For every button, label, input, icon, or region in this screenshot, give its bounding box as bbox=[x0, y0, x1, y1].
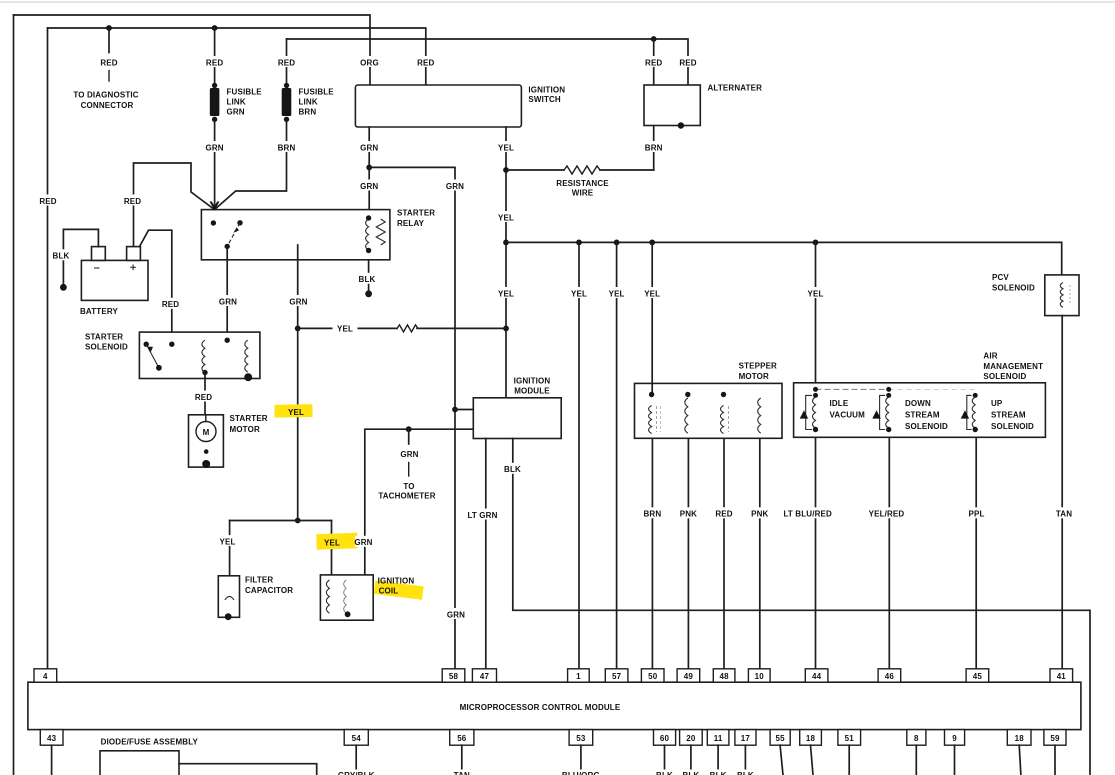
svg-text:41: 41 bbox=[1057, 672, 1067, 681]
fusible link GRN bbox=[210, 83, 220, 122]
svg-text:ORG: ORG bbox=[360, 58, 379, 67]
svg-text:49: 49 bbox=[684, 672, 694, 681]
pin box 51 bbox=[838, 730, 861, 746]
resistance wire R1 bbox=[506, 166, 654, 174]
relay coil winding bbox=[366, 219, 369, 250]
solenoid coil 1 bbox=[202, 340, 205, 372]
svg-text:59: 59 bbox=[1050, 734, 1060, 743]
wire RED alternator feed 1 bbox=[653, 39, 655, 85]
wire YEL drop to stepper motor bbox=[651, 242, 653, 383]
stepper wire into box bbox=[651, 383, 653, 394]
wire BLK relay coil ground bbox=[368, 260, 370, 291]
svg-text:BLU/ORG: BLU/ORG bbox=[562, 771, 600, 775]
svg-text:BRN: BRN bbox=[644, 510, 662, 519]
relay contact dot right bbox=[237, 220, 242, 225]
svg-text:PCV: PCV bbox=[992, 273, 1009, 282]
wire YEL to filter capacitor bbox=[229, 521, 231, 576]
wire RED from battery to relay (up-over) bbox=[134, 163, 215, 247]
pin box 41 bbox=[1050, 669, 1073, 682]
node BLK label (60) bbox=[654, 770, 675, 775]
solenoid GRN terminal dot bbox=[225, 338, 230, 343]
svg-text:4: 4 bbox=[43, 672, 48, 681]
svg-text:RED: RED bbox=[278, 58, 295, 67]
node IGNITION SWITCH label bbox=[528, 86, 565, 105]
filter capacitor C1 bbox=[218, 576, 239, 620]
node PNK label (stepper 2) bbox=[678, 507, 700, 518]
svg-text:43: 43 bbox=[47, 734, 57, 743]
node BRN label (alternator) bbox=[643, 141, 665, 152]
svg-text:58: 58 bbox=[449, 672, 459, 681]
junction on bus2 at diagnostic bbox=[106, 25, 112, 31]
pin box 11 bbox=[707, 730, 729, 746]
wire GRN relay to starter solenoid bbox=[226, 246, 228, 340]
pin box 60 bbox=[654, 730, 676, 746]
solenoid switch contact dot bbox=[144, 342, 149, 347]
node GRN label (switch out) bbox=[358, 141, 380, 152]
svg-text:STARTER: STARTER bbox=[85, 332, 123, 341]
svg-text:1: 1 bbox=[576, 672, 581, 681]
node PPL label bbox=[966, 507, 988, 518]
svg-text:55: 55 bbox=[775, 734, 785, 743]
relay switch arm bbox=[227, 223, 240, 247]
svg-text:YEL: YEL bbox=[498, 289, 514, 298]
node ORG label bbox=[358, 56, 381, 67]
svg-text:RED: RED bbox=[679, 58, 696, 67]
svg-text:WIRE: WIRE bbox=[572, 189, 594, 198]
wire below pin 43 bbox=[51, 745, 53, 775]
stepper winding 1 bbox=[649, 392, 661, 434]
junction YEL split capacitor/coil bbox=[295, 518, 301, 524]
svg-text:MANAGEMENT: MANAGEMENT bbox=[983, 362, 1043, 371]
ignition module U2 bbox=[473, 398, 561, 439]
pin box 17 bbox=[735, 730, 756, 746]
wire top bus 3 (alternator feed) bbox=[287, 39, 689, 85]
wire top bus 1 (to ORG) bbox=[14, 15, 371, 85]
svg-text:TACHOMETER: TACHOMETER bbox=[378, 491, 435, 500]
PCV solenoid L1 bbox=[1045, 275, 1079, 316]
node LT GRN label bbox=[467, 509, 500, 520]
wire BLK below pin 60 bbox=[664, 745, 666, 775]
air mgmt internal bus bbox=[813, 387, 975, 392]
wire LT BLU/RED to pin 44 bbox=[815, 437, 817, 669]
svg-text:48: 48 bbox=[719, 672, 729, 681]
svg-text:50: 50 bbox=[648, 672, 658, 681]
node GRN label (module feed) bbox=[444, 180, 466, 191]
wire BLU/ORG below pin 53 bbox=[580, 745, 582, 775]
svg-text:54: 54 bbox=[352, 734, 362, 743]
svg-text:47: 47 bbox=[480, 672, 490, 681]
pin box 56 bbox=[450, 730, 474, 746]
node GRN label (ignition coil) bbox=[354, 536, 376, 547]
relay coil bottom dot bbox=[366, 248, 371, 253]
svg-text:BLK: BLK bbox=[504, 465, 521, 474]
pin box 9 bbox=[945, 730, 965, 746]
node TAN label bbox=[1052, 507, 1076, 518]
node IGNITION MODULE label bbox=[513, 376, 558, 396]
junction on bus2 at fusible link GRN bbox=[212, 25, 218, 31]
node YEL label 3 bbox=[496, 287, 517, 298]
node STARTER MOTOR label bbox=[230, 414, 268, 434]
node GRN label (relay out 2) bbox=[288, 295, 310, 306]
svg-text:IGNITION: IGNITION bbox=[378, 576, 415, 585]
svg-text:DOWN: DOWN bbox=[905, 399, 931, 408]
svg-text:YEL: YEL bbox=[288, 408, 304, 417]
svg-text:18: 18 bbox=[1015, 734, 1025, 743]
wire RED stub to diagnostic connector bbox=[108, 28, 110, 81]
microprocessor control module bbox=[28, 682, 1081, 729]
pin box 45 bbox=[966, 669, 989, 682]
node BLU/ORG label bbox=[560, 770, 602, 775]
node YEL label (pin57) bbox=[606, 287, 627, 298]
wire TAN below pin 56 bbox=[461, 745, 463, 775]
svg-text:11: 11 bbox=[714, 734, 723, 743]
svg-text:RED: RED bbox=[124, 197, 141, 206]
svg-text:STEPPER: STEPPER bbox=[739, 362, 777, 371]
svg-text:STREAM: STREAM bbox=[905, 410, 940, 419]
junction bus3 alternator left bbox=[651, 36, 657, 42]
node YEL label 2 bbox=[496, 211, 517, 222]
wire GRN ignition switch output bbox=[368, 127, 370, 210]
wire below pin 55 bbox=[780, 745, 783, 775]
wire GRN ignition coil to module bbox=[365, 429, 474, 575]
svg-text:BRN: BRN bbox=[645, 143, 663, 152]
pin box 53 bbox=[569, 730, 593, 746]
svg-text:GRN: GRN bbox=[354, 538, 372, 547]
node YEL label 1 bbox=[496, 141, 517, 152]
svg-text:TO: TO bbox=[403, 482, 414, 491]
pin box 8 bbox=[907, 730, 926, 746]
node RED label (alt 1) bbox=[643, 56, 664, 67]
wire RED stepper to pin 48 bbox=[723, 438, 725, 669]
wire GRY/BLK below pin 54 bbox=[355, 745, 357, 775]
svg-text:TO DIAGNOSTIC: TO DIAGNOSTIC bbox=[73, 91, 138, 100]
wire left RED vertical to pin 4 bbox=[47, 28, 49, 669]
wire GRN branch to ignition module bbox=[369, 167, 455, 668]
svg-text:BLK: BLK bbox=[53, 252, 70, 261]
junction GRN at ignition module bbox=[452, 407, 458, 413]
wire GRN from fusible link to starter relay bbox=[214, 119, 216, 209]
node YEL label (air mgmt) bbox=[805, 287, 826, 298]
svg-text:GRN: GRN bbox=[219, 297, 237, 306]
fusible link BRN bbox=[282, 83, 292, 122]
solenoid coil 2 bbox=[245, 340, 248, 372]
node TAN label (bottom) bbox=[450, 770, 474, 775]
pin box 54 bbox=[344, 730, 368, 746]
svg-text:56: 56 bbox=[457, 734, 467, 743]
svg-text:SOLENOID: SOLENOID bbox=[85, 343, 128, 352]
stepper motor M2 bbox=[635, 383, 783, 438]
ignition switch U1 bbox=[355, 85, 521, 127]
node STARTER SOLENOID label bbox=[85, 332, 128, 351]
node IGNITION COIL label bbox=[378, 576, 415, 595]
node FUSIBLE LINK GRN label bbox=[227, 87, 263, 116]
svg-text:RED: RED bbox=[39, 197, 56, 206]
svg-text:AIR: AIR bbox=[983, 352, 997, 361]
wire YEL drop to pin 1 bbox=[578, 242, 580, 668]
junction YEL resistor line left bbox=[295, 326, 301, 332]
svg-text:PPL: PPL bbox=[968, 510, 984, 519]
node YEL label (filter cap) bbox=[217, 535, 238, 546]
svg-text:44: 44 bbox=[812, 672, 822, 681]
wire RED drop to fusible link GRN bbox=[214, 28, 216, 86]
relay coil top dot bbox=[366, 215, 371, 220]
node RED label (fusible BRN) bbox=[276, 56, 297, 67]
svg-text:SOLENOID: SOLENOID bbox=[992, 283, 1035, 292]
svg-text:LINK: LINK bbox=[299, 97, 318, 106]
svg-text:COIL: COIL bbox=[379, 587, 399, 596]
idle vacuum solenoid L2 bbox=[800, 393, 819, 432]
wire GRN relay second output bbox=[297, 245, 299, 521]
svg-text:53: 53 bbox=[576, 734, 586, 743]
wire LT GRN module to pin 47 bbox=[485, 439, 487, 669]
pin box 55 bbox=[770, 730, 790, 746]
svg-text:RED: RED bbox=[162, 300, 179, 309]
wire GRN tachometer stub bbox=[408, 429, 410, 476]
svg-text:60: 60 bbox=[660, 734, 670, 743]
svg-text:TAN: TAN bbox=[454, 771, 470, 775]
svg-text:GRN: GRN bbox=[446, 182, 464, 191]
wire RED solenoid to starter motor bbox=[204, 373, 206, 415]
svg-text:RED: RED bbox=[195, 393, 212, 402]
svg-text:YEL: YEL bbox=[498, 213, 514, 222]
wire BRN from fusible link to starter relay bbox=[215, 119, 287, 209]
svg-text:RED: RED bbox=[417, 58, 434, 67]
pin box 49 bbox=[677, 669, 700, 682]
junction YEL resistor line 2 bbox=[503, 326, 509, 332]
node YEL label (resistor line) bbox=[333, 323, 358, 335]
wire YEL split horizontal bbox=[230, 520, 332, 522]
node AIR MANAGEMENT SOLENOID label bbox=[983, 352, 1043, 382]
svg-text:YEL: YEL bbox=[609, 289, 625, 298]
stepper winding 4 bbox=[758, 398, 761, 433]
relay arm pivot dot bbox=[225, 244, 230, 249]
svg-text:YEL: YEL bbox=[219, 537, 235, 546]
wire RED battery to starter solenoid bbox=[140, 230, 172, 344]
pin box 57 bbox=[605, 669, 628, 682]
svg-text:SOLENOID: SOLENOID bbox=[983, 372, 1026, 381]
svg-text:51: 51 bbox=[845, 734, 855, 743]
svg-text:BLK: BLK bbox=[359, 275, 376, 284]
svg-text:DIODE/FUSE ASSEMBLY: DIODE/FUSE ASSEMBLY bbox=[101, 737, 199, 746]
wire BLK below pin 20 bbox=[690, 745, 692, 775]
node FILTER CAPACITOR label bbox=[245, 575, 293, 594]
svg-text:46: 46 bbox=[885, 672, 895, 681]
svg-text:MODULE: MODULE bbox=[514, 387, 550, 396]
highlight YEL marker 1 bbox=[274, 404, 312, 417]
battery bbox=[81, 247, 148, 301]
svg-text:MICROPROCESSOR CONTROL MODUL: MICROPROCESSOR CONTROL MODULE bbox=[460, 703, 621, 712]
node YEL label (pin1) bbox=[569, 287, 590, 298]
node UP STREAM SOLENOID label bbox=[991, 399, 1034, 431]
svg-text:IGNITION: IGNITION bbox=[528, 86, 565, 95]
svg-text:IDLE: IDLE bbox=[830, 399, 849, 408]
svg-text:8: 8 bbox=[914, 734, 919, 743]
svg-text:FILTER: FILTER bbox=[245, 575, 273, 584]
pin box 48 bbox=[713, 669, 735, 682]
junction YEL resistance wire bbox=[503, 167, 509, 173]
svg-text:YEL: YEL bbox=[571, 289, 587, 298]
svg-text:CAPACITOR: CAPACITOR bbox=[245, 586, 293, 595]
air management solenoid assembly bbox=[794, 383, 1046, 438]
wire below pin 18 right bbox=[1019, 745, 1021, 775]
svg-text:MOTOR: MOTOR bbox=[739, 372, 769, 381]
wire top bus 2 (RED) bbox=[48, 28, 426, 85]
node STARTER RELAY label bbox=[397, 209, 435, 228]
svg-text:BRN: BRN bbox=[299, 107, 317, 116]
node RED label (stepper 3) bbox=[714, 507, 735, 518]
svg-text:RELAY: RELAY bbox=[397, 219, 425, 228]
svg-text:YEL: YEL bbox=[807, 289, 823, 298]
solenoid coil 2 terminal dot bbox=[244, 373, 252, 381]
pin box 47 bbox=[472, 669, 496, 682]
svg-text:BLK: BLK bbox=[682, 771, 699, 775]
svg-text:RESISTANCE: RESISTANCE bbox=[556, 179, 609, 188]
svg-text:18: 18 bbox=[806, 734, 816, 743]
svg-text:BRN: BRN bbox=[278, 143, 296, 152]
relay contact dot left bbox=[211, 220, 216, 225]
svg-text:PNK: PNK bbox=[751, 510, 768, 519]
wire GRN into ignition module bbox=[455, 409, 473, 411]
pin box 4 bbox=[34, 669, 57, 682]
wire below pin 51 bbox=[848, 745, 850, 775]
wire BRN stepper to pin 50 bbox=[651, 438, 653, 669]
svg-text:TAN: TAN bbox=[1056, 510, 1072, 519]
node RED label (battery to solenoid) bbox=[160, 298, 181, 309]
wire PNK stepper to pin 10 bbox=[759, 438, 761, 669]
node BRN label (below fusible BRN) bbox=[276, 141, 298, 152]
pin box 46 bbox=[878, 669, 901, 682]
junction alternator bottom bbox=[678, 122, 684, 128]
svg-text:LT BLU/RED: LT BLU/RED bbox=[783, 510, 832, 519]
wire TAN PCV to pin 41 bbox=[1061, 316, 1063, 669]
svg-text:YEL/RED: YEL/RED bbox=[869, 510, 905, 519]
svg-text:RED: RED bbox=[100, 58, 117, 67]
wire PNK stepper to pin 49 bbox=[687, 438, 689, 669]
svg-text:GRN: GRN bbox=[205, 143, 223, 152]
wire from diode/fuse assembly bbox=[179, 764, 317, 775]
node YEL/RED label bbox=[867, 507, 906, 518]
junction GRN tachometer tap bbox=[406, 426, 412, 432]
svg-text:LT GRN: LT GRN bbox=[467, 511, 497, 520]
junction arrow into relay bbox=[210, 202, 220, 211]
svg-text:GRY/BLK: GRY/BLK bbox=[338, 771, 375, 775]
svg-text:YEL: YEL bbox=[498, 143, 514, 152]
node GRN label (below fusible GRN) bbox=[204, 141, 226, 152]
node FUSIBLE LINK BRN label bbox=[299, 87, 335, 116]
stepper winding 2 bbox=[685, 392, 691, 433]
svg-text:STARTER: STARTER bbox=[230, 414, 268, 423]
svg-text:GRN: GRN bbox=[400, 450, 418, 459]
starter relay K1 bbox=[201, 210, 390, 260]
node YEL label (stepper) bbox=[642, 287, 663, 298]
solenoid switch arm bbox=[146, 344, 162, 370]
wire RED drop to fusible link BRN bbox=[286, 39, 288, 86]
node BLK label (module) bbox=[502, 463, 523, 474]
svg-text:LINK: LINK bbox=[227, 97, 246, 106]
svg-text:SWITCH: SWITCH bbox=[528, 95, 561, 104]
svg-text:STREAM: STREAM bbox=[991, 410, 1026, 419]
node TO TACHOMETER label bbox=[378, 482, 435, 500]
pin box 1 bbox=[568, 669, 590, 682]
wire YEL ignition switch output to module bbox=[505, 127, 507, 398]
pin box 18 right bbox=[1007, 730, 1031, 746]
junction GRN switch output bbox=[366, 165, 372, 171]
node PCV SOLENOID label bbox=[992, 273, 1035, 292]
svg-text:FUSIBLE: FUSIBLE bbox=[299, 87, 335, 96]
up stream solenoid L4 bbox=[961, 393, 978, 432]
svg-text:IGNITION: IGNITION bbox=[514, 377, 551, 386]
wire BLK below pin 17 bbox=[744, 745, 746, 775]
pin box 59 bbox=[1044, 730, 1066, 746]
svg-text:M: M bbox=[203, 428, 210, 437]
stepper winding 3 bbox=[721, 392, 729, 434]
svg-text:CONNECTOR: CONNECTOR bbox=[81, 101, 134, 110]
svg-text:UP: UP bbox=[991, 399, 1003, 408]
node RED label (alt 2) bbox=[678, 56, 699, 67]
node RED label (starter motor) bbox=[193, 391, 214, 402]
svg-text:YEL: YEL bbox=[644, 289, 660, 298]
node RED label (left wire) bbox=[38, 195, 58, 206]
node TO DIAGNOSTIC CONNECTOR bbox=[73, 91, 138, 111]
svg-text:YEL: YEL bbox=[324, 539, 340, 548]
node BLK label (17) bbox=[735, 770, 756, 775]
pin box 44 bbox=[805, 669, 828, 682]
junction YEL bus start bbox=[503, 240, 509, 246]
node LT BLU/RED label bbox=[781, 507, 834, 518]
node BLK label (battery) bbox=[51, 249, 72, 260]
pin box 18 bbox=[800, 730, 822, 746]
alternator bbox=[644, 85, 700, 126]
svg-text:GRN: GRN bbox=[227, 107, 245, 116]
svg-text:BLK: BLK bbox=[737, 771, 754, 775]
wire BLK module ground run bbox=[513, 439, 1090, 775]
starter solenoid bbox=[139, 332, 260, 378]
pin box 10 bbox=[748, 669, 770, 682]
highlight YEL marker 2 bbox=[316, 533, 358, 550]
node RED label (fusible GRN) bbox=[204, 56, 225, 67]
svg-text:RED: RED bbox=[715, 510, 732, 519]
svg-text:MOTOR: MOTOR bbox=[230, 425, 260, 434]
svg-text:BLK: BLK bbox=[710, 771, 727, 775]
svg-text:45: 45 bbox=[973, 672, 983, 681]
svg-text:GRN: GRN bbox=[447, 610, 465, 619]
svg-text:PNK: PNK bbox=[680, 510, 697, 519]
junction YEL bus pin57 bbox=[614, 240, 620, 246]
wire BRN from alternator bbox=[653, 126, 655, 171]
wire below pin 18 bbox=[811, 745, 814, 775]
svg-text:ALTERNATER: ALTERNATER bbox=[708, 83, 763, 92]
svg-text:RED: RED bbox=[645, 58, 662, 67]
svg-text:VACUUM: VACUUM bbox=[830, 410, 866, 419]
diode/fuse assembly box bbox=[100, 751, 179, 775]
svg-text:RED: RED bbox=[206, 58, 223, 67]
terminal dot BLK battery bbox=[60, 284, 67, 291]
wire YEL to ignition coil bbox=[331, 521, 333, 575]
svg-text:YEL: YEL bbox=[337, 325, 353, 334]
solenoid RED terminal dot bbox=[169, 342, 174, 347]
svg-text:17: 17 bbox=[741, 734, 751, 743]
left border wire bbox=[13, 15, 15, 775]
pin box 20 bbox=[680, 730, 703, 746]
wire below pin 8 bbox=[915, 745, 917, 775]
svg-text:GRN: GRN bbox=[289, 297, 307, 306]
wire YEL drop to pin 57 bbox=[616, 242, 618, 668]
pin box 58 bbox=[442, 669, 465, 682]
wire YEL crank resistor line bbox=[298, 325, 506, 332]
node RED label (ignition switch) bbox=[415, 56, 436, 67]
svg-text:SOLENOID: SOLENOID bbox=[991, 422, 1034, 431]
highlight IGNITION COIL marker bbox=[374, 581, 424, 600]
